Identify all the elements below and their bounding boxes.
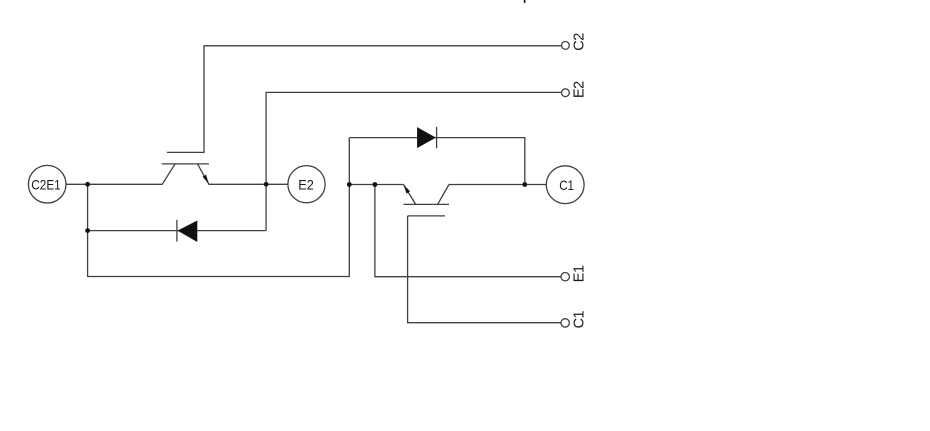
svg-text:C1: C1 — [559, 177, 574, 193]
svg-text:E2: E2 — [298, 177, 314, 193]
svg-text:C2: C2 — [571, 33, 587, 51]
svg-text:E2: E2 — [571, 81, 587, 98]
svg-text:C1: C1 — [571, 310, 587, 328]
svg-text:C2E1: C2E1 — [31, 176, 61, 192]
svg-text:E1: E1 — [571, 265, 587, 282]
